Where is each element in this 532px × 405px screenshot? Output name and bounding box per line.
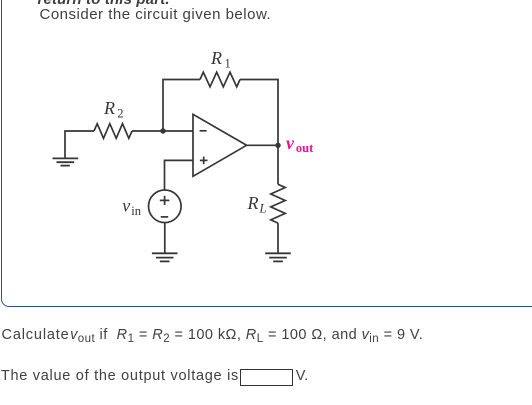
svg-text:v: v <box>122 195 130 215</box>
wire: R1 to right branch <box>240 80 278 146</box>
label R2 <box>103 98 124 121</box>
node A: inverting input junction <box>160 128 165 133</box>
svg-text:out: out <box>296 141 314 155</box>
wire: node Vout down to RL <box>277 145 279 184</box>
svg-text:R: R <box>210 48 222 68</box>
resistor R2 <box>94 124 132 139</box>
svg-text:2: 2 <box>117 107 123 121</box>
resistor RL <box>271 184 285 223</box>
ground (under Vin) <box>152 253 178 261</box>
heading: return to this part. (cut off at top) <box>38 0 170 8</box>
question line 1 <box>2 327 424 343</box>
svg-text:1: 1 <box>225 57 231 71</box>
op-amp U1 <box>193 114 247 176</box>
prompt text <box>40 6 272 23</box>
wire: op-amp noninverting input to source Vin <box>165 160 194 190</box>
wire: RL to ground <box>277 223 279 253</box>
wire: R2 left lead to ground <box>65 131 94 158</box>
label v_out <box>286 133 314 155</box>
label R1 <box>210 48 231 71</box>
ground (left, at R2) <box>53 158 79 165</box>
svg-text:R: R <box>103 98 115 118</box>
answer input box <box>240 369 293 387</box>
wire: R2 to node A <box>132 130 193 132</box>
voltage source Vin <box>149 190 182 223</box>
svg-text:R: R <box>247 193 259 213</box>
svg-text:in: in <box>131 204 141 218</box>
wire: op-amp output to node Vout <box>247 144 278 146</box>
label RL <box>247 193 267 216</box>
label v_in <box>122 195 141 218</box>
question line 2 <box>1 368 239 384</box>
svg-text:L: L <box>259 202 267 216</box>
svg-text:v: v <box>286 133 295 153</box>
question panel border <box>1 0 532 307</box>
node Vout: output junction <box>275 143 280 148</box>
resistor R1 <box>200 72 240 87</box>
wire: source Vin to ground <box>164 223 166 253</box>
wire: feedback top, node A up to R1 <box>163 80 200 132</box>
ground (under RL) <box>265 253 291 261</box>
unit V. <box>296 368 308 384</box>
